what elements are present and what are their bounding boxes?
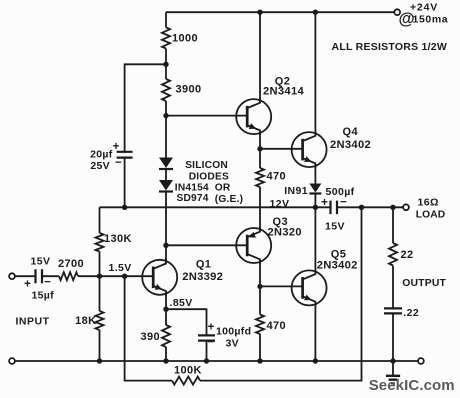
wire Q3 collector down <box>259 262 261 287</box>
node junction gnd out <box>390 358 395 363</box>
node junction cap20/mid <box>122 205 127 210</box>
transistor Q5 2N3402 <box>292 270 327 305</box>
resistor 18K <box>96 311 104 330</box>
svg-text:20µf: 20µf <box>90 148 113 160</box>
svg-text:3V: 3V <box>226 338 239 350</box>
node junction Q3 emitter/Q5 base <box>257 284 262 289</box>
wire R2700 to Q1 base <box>78 275 153 277</box>
wire 18K top <box>99 276 101 311</box>
wire Q5 collector up <box>314 207 316 272</box>
transistor Q4 2N3402 <box>292 132 327 167</box>
svg-text:OUTPUT: OUTPUT <box>402 278 446 289</box>
svg-text:−: − <box>208 337 215 349</box>
svg-text:−: − <box>44 277 51 289</box>
node junction 1000/3900/cap <box>163 62 168 67</box>
svg-text:18K: 18K <box>75 315 96 327</box>
wire C20 to mid rail <box>124 158 126 208</box>
svg-text:100K: 100K <box>174 365 202 377</box>
diode D2 silicon <box>159 180 173 191</box>
node junction output mid <box>313 205 318 210</box>
terminal input hot <box>9 273 15 279</box>
node junction Q2 emitter <box>257 146 262 151</box>
svg-text:2700: 2700 <box>58 258 84 270</box>
wire Q3 base <box>166 244 247 246</box>
diode D1 silicon <box>159 158 173 169</box>
node junction 22 top <box>390 205 395 210</box>
node junction 130K/18K <box>97 274 102 279</box>
resistor 390 <box>162 325 170 347</box>
svg-text:(G.E.): (G.E.) <box>215 194 243 205</box>
wire Q4 base <box>260 148 303 150</box>
svg-text:−: − <box>115 157 122 169</box>
wire R470 lower <box>259 286 261 314</box>
wire Q5 emitter to gnd <box>314 304 316 361</box>
svg-text:SeekIC.com: SeekIC.com <box>369 377 455 394</box>
svg-text:15µf: 15µf <box>32 290 55 302</box>
diode IN91 <box>309 184 321 193</box>
svg-text:IN91: IN91 <box>284 185 308 197</box>
svg-text:3900: 3900 <box>176 84 202 96</box>
wire R390 to gnd <box>165 347 167 361</box>
svg-text:2N3402: 2N3402 <box>317 260 358 272</box>
wire R3900 to diodes <box>165 101 167 158</box>
terminal +24V supply <box>394 9 400 15</box>
resistor 470 lower <box>256 315 264 335</box>
resistor 3900 <box>162 79 170 101</box>
ground symbol <box>392 361 394 376</box>
transistor Q2 2N3414 <box>236 99 271 134</box>
wire ground rail <box>15 360 418 362</box>
svg-text:.22: .22 <box>403 307 419 319</box>
svg-text:IN4154: IN4154 <box>175 182 209 193</box>
node junction gnd cap100 <box>204 358 209 363</box>
wire Q4 emitter to IN91 <box>314 166 316 184</box>
capacitor C 100ufd 3V <box>198 335 215 340</box>
wire Q2e to R470 <box>259 149 261 168</box>
svg-text:+: + <box>24 279 31 291</box>
terminal gnd right <box>418 358 424 364</box>
node junction gnd Q5 <box>313 358 318 363</box>
wire R470 to Q3 <box>259 187 261 230</box>
capacitor C 500uf 15V <box>331 201 338 215</box>
resistor 1000 <box>162 28 170 49</box>
svg-text:.85V: .85V <box>170 297 193 309</box>
svg-text:ALL RESISTORS 1/2W: ALL RESISTORS 1/2W <box>332 41 448 53</box>
svg-text:130K: 130K <box>104 233 132 245</box>
wire Q1 collector up <box>165 245 167 261</box>
wire R1000 to R3900 <box>165 49 167 80</box>
svg-text:2N3402: 2N3402 <box>330 139 371 151</box>
wire cap.22 to gnd <box>392 314 394 361</box>
terminal input gnd <box>9 358 15 364</box>
svg-text:2N3392: 2N3392 <box>182 271 223 283</box>
wire D2 to Q3 base node <box>165 192 167 246</box>
wire 130K column top <box>99 207 101 233</box>
svg-text:15V: 15V <box>325 221 345 233</box>
resistor 100K <box>172 377 200 385</box>
svg-text:SILICON: SILICON <box>185 160 228 171</box>
wire 130K to input line <box>99 252 101 277</box>
svg-text:+: + <box>208 322 215 334</box>
svg-text:2N3414: 2N3414 <box>263 85 304 97</box>
node junction Q2 collector rail <box>257 10 262 15</box>
svg-text:16Ω: 16Ω <box>418 196 439 208</box>
svg-text:470: 470 <box>267 320 287 332</box>
terminal load <box>403 204 409 210</box>
wire feedback down <box>125 276 172 380</box>
wire D1 to D2 <box>165 169 167 180</box>
wire Q2 emitter down <box>259 132 261 149</box>
svg-text:1.5V: 1.5V <box>109 262 132 274</box>
svg-text:25V: 25V <box>90 160 110 172</box>
node junction feedback tap <box>122 274 127 279</box>
svg-text:INPUT: INPUT <box>16 316 50 328</box>
resistor 2700 <box>59 272 78 280</box>
node junction Q4 collector rail <box>313 10 318 15</box>
wire Q2 base <box>166 115 247 117</box>
wire cap100 to gnd <box>206 341 208 361</box>
wire junction to C 20uf <box>125 64 166 151</box>
node junction Q3 base <box>163 243 168 248</box>
transistor Q3 2N320 <box>236 228 271 263</box>
resistor 130K <box>96 233 104 252</box>
wire 22 top <box>392 207 394 243</box>
wire C15 to R2700 <box>43 275 59 277</box>
svg-text:100µfd: 100µfd <box>216 326 251 338</box>
wire mid rail left section <box>100 206 331 208</box>
wire Q2 collector to rail <box>259 12 261 101</box>
wire feedback right <box>200 207 362 380</box>
wire .85V to cap100 <box>166 309 207 334</box>
wire input to C15 <box>15 275 35 277</box>
wire Q4 collector to rail <box>314 12 316 134</box>
svg-text:SD974: SD974 <box>177 193 209 204</box>
svg-text:22: 22 <box>401 249 414 261</box>
wire top supply rail <box>166 11 394 13</box>
wire R470l to gnd <box>259 334 261 361</box>
svg-text:470: 470 <box>267 170 287 182</box>
svg-text:2N320: 2N320 <box>268 227 302 239</box>
capacitor C 20uf 25V <box>117 152 133 158</box>
resistor 22 <box>389 243 397 266</box>
svg-text:1000: 1000 <box>172 33 198 45</box>
wire R390 top <box>165 309 167 325</box>
node junction .85V <box>163 307 168 312</box>
wire mid right section <box>337 206 403 208</box>
node junction feedback top <box>359 205 364 210</box>
svg-text:LOAD: LOAD <box>416 209 446 220</box>
resistor 470 upper <box>256 168 264 187</box>
svg-text:Q4: Q4 <box>343 126 359 138</box>
capacitor C 15uf <box>36 269 43 283</box>
node junction gnd 390 <box>163 358 168 363</box>
node junction Q2 base <box>163 113 168 118</box>
svg-text:OR: OR <box>215 182 231 193</box>
svg-text:Q1: Q1 <box>196 258 211 270</box>
wire 22 to cap.22 <box>392 266 394 308</box>
capacitor C .22 <box>384 308 402 313</box>
node junction gnd 18K <box>97 358 102 363</box>
wire top rail to R 1000 <box>165 12 167 27</box>
svg-text:+: + <box>321 197 328 209</box>
transistor Q1 2N3392 <box>142 260 177 295</box>
svg-text:15V: 15V <box>31 256 51 268</box>
svg-text:12V: 12V <box>270 198 290 210</box>
wire IN91 to mid <box>314 194 316 207</box>
wire Q1 emitter down <box>165 294 167 310</box>
wire Q5 base <box>260 285 303 287</box>
svg-text:150ma: 150ma <box>413 14 449 26</box>
wire 18K to gnd <box>99 330 101 361</box>
svg-text:DIODES: DIODES <box>189 172 229 183</box>
svg-text:390: 390 <box>140 331 160 343</box>
svg-text:+: + <box>113 141 120 153</box>
node junction gnd 470 <box>257 358 262 363</box>
